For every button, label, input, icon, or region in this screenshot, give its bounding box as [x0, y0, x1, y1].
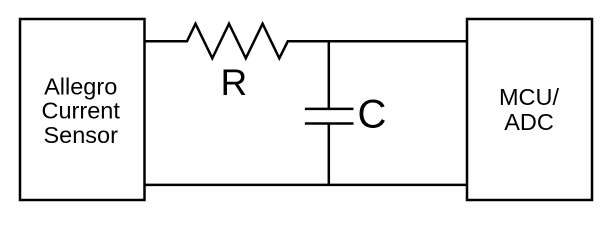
- svg-text:Allegro: Allegro: [44, 73, 117, 99]
- svg-text:Current: Current: [42, 98, 121, 124]
- svg-text:R: R: [221, 62, 248, 103]
- svg-text:C: C: [358, 92, 387, 136]
- svg-text:MCU/: MCU/: [499, 84, 560, 110]
- svg-text:ADC: ADC: [504, 109, 554, 135]
- svg-text:Sensor: Sensor: [43, 122, 118, 148]
